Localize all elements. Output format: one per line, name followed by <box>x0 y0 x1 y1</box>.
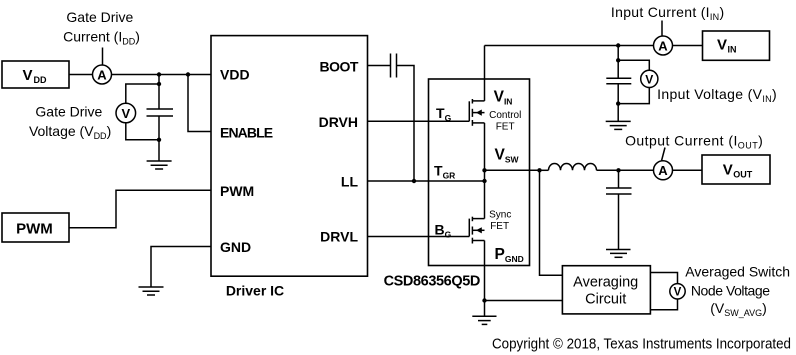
wire rail to ENABLE pin <box>188 75 211 132</box>
svg-text:PWM: PWM <box>16 220 53 237</box>
wire averaging to V3 top <box>650 273 677 284</box>
svg-text:Sync: Sync <box>489 210 511 221</box>
node dot rail/enable <box>186 72 190 76</box>
node dot rail/cap <box>157 72 161 76</box>
leader line to A1 <box>102 48 104 65</box>
wire PWM box to PWM pin <box>69 190 211 227</box>
svg-text:ENABLE: ENABLE <box>220 125 273 141</box>
capacitor C1 <box>147 109 174 116</box>
svg-text:Node Voltage: Node Voltage <box>691 282 770 298</box>
pin label TG <box>436 105 452 123</box>
pin label DRVL <box>320 229 358 245</box>
pin label LL <box>341 174 359 190</box>
svg-text:BOOT: BOOT <box>320 58 359 74</box>
wire V2 bottom tap <box>618 88 649 104</box>
svg-text:VDD: VDD <box>220 67 250 83</box>
wire A3 to VOUT box <box>673 169 703 171</box>
power block box CSD86356Q5D <box>429 79 530 266</box>
node dot output cap <box>616 168 620 172</box>
label output current (IOUT) <box>625 133 763 151</box>
wire averaging to V3 bottom <box>650 299 677 310</box>
label input voltage (VIN) <box>657 86 777 104</box>
svg-text:V: V <box>121 106 130 121</box>
label input current (IIN) <box>611 4 725 22</box>
pin label BG <box>435 222 452 240</box>
svg-text:V: V <box>645 73 653 87</box>
svg-text:FET: FET <box>490 221 509 232</box>
transistor Q2 sync FET <box>469 217 484 244</box>
svg-text:V: V <box>674 287 682 299</box>
pin label BOOT <box>320 58 359 74</box>
top input rail wire <box>485 45 654 47</box>
wire A1 to VDD pin <box>112 74 212 76</box>
label gate drive current (IDD) <box>63 9 140 46</box>
node dot V1 top <box>157 82 161 86</box>
svg-text:Copyright © 2018, Texas Instru: Copyright © 2018, Texas Instruments Inco… <box>492 337 791 353</box>
svg-text:FET: FET <box>496 121 515 132</box>
svg-text:A: A <box>97 67 107 82</box>
svg-text:V: V <box>717 37 727 54</box>
node dot VSW <box>482 168 486 172</box>
svg-text:Driver IC: Driver IC <box>226 283 284 299</box>
source box VIN <box>703 31 770 60</box>
ground driver GND <box>139 287 164 295</box>
pin label ENABLE <box>220 125 273 141</box>
ground input cap <box>606 121 631 129</box>
svg-text:DRVH: DRVH <box>319 114 358 130</box>
pin label GND <box>220 239 251 255</box>
svg-text:V: V <box>23 67 33 84</box>
pin label VDD <box>220 67 250 83</box>
inductor L1 <box>540 164 619 171</box>
svg-text:DD: DD <box>34 75 47 85</box>
output capacitor C4 <box>606 188 632 194</box>
wire V1 top tap <box>126 84 159 103</box>
wire VSW to averaging circuit <box>540 170 563 275</box>
svg-text:LL: LL <box>341 174 359 190</box>
voltmeter V1 gate drive voltage <box>116 103 136 123</box>
pin label VIN <box>494 89 513 107</box>
label sync FET <box>489 210 511 233</box>
label gate drive voltage (VDD) <box>29 104 111 141</box>
pin label DRVH <box>319 114 358 130</box>
label control FET <box>489 110 521 132</box>
node dot input cap <box>616 43 620 47</box>
svg-text:V: V <box>723 161 733 178</box>
node dot LL join <box>482 179 486 183</box>
wire Q2 source to PGND ground <box>484 241 486 317</box>
output cap top lead <box>618 170 620 188</box>
ground gate drive <box>147 161 172 169</box>
svg-text:Averaged Switch: Averaged Switch <box>685 263 790 279</box>
wire boot capacitor to LL node <box>397 66 415 182</box>
svg-text:Input Voltage (VIN): Input Voltage (VIN) <box>657 86 777 104</box>
input cap bottom lead <box>617 84 619 122</box>
svg-text:GND: GND <box>220 239 251 255</box>
svg-text:Input Current (IIN): Input Current (IIN) <box>611 4 725 22</box>
wire PGND to averaging circuit <box>485 300 563 302</box>
pin label PGND <box>495 246 524 264</box>
leader line to A3 <box>662 148 665 161</box>
transistor Q1 control FET <box>469 99 484 126</box>
svg-text:PWM: PWM <box>220 183 254 199</box>
wire DRVH to TG <box>368 120 470 122</box>
wire LL node to Q2 drain <box>484 181 486 219</box>
svg-text:DRVL: DRVL <box>320 229 358 245</box>
node dot VSW out <box>537 168 541 172</box>
leader line to A2 <box>661 21 663 36</box>
pin label PWM <box>220 183 254 199</box>
wire BOOT to boot capacitor <box>368 65 391 67</box>
source box PWM <box>2 213 69 242</box>
svg-text:A: A <box>658 163 668 178</box>
input cap top lead <box>617 46 619 79</box>
wire LL to TGR <box>368 180 485 182</box>
wire VSW out <box>485 169 540 171</box>
wire VIN drain to top rail <box>484 46 486 101</box>
svg-text:CSD86356Q5D: CSD86356Q5D <box>384 274 480 290</box>
ammeter A1 gate drive current <box>93 65 112 84</box>
label averaged switch node voltage <box>685 263 790 317</box>
wire VDD box to ammeter A1 <box>69 74 93 76</box>
pin label TGR <box>434 163 455 181</box>
driver IC box U1 <box>211 36 368 277</box>
svg-text:IN: IN <box>728 45 737 55</box>
averaging circuit box <box>562 266 650 314</box>
node dot V1 bottom <box>157 138 161 142</box>
wire DRVL to BG <box>368 236 470 238</box>
label CSD86356Q5D <box>384 274 480 290</box>
wire Q1 source to VSW <box>484 123 486 181</box>
ground output cap <box>606 250 631 258</box>
label Driver IC <box>226 283 284 299</box>
source box VOUT <box>702 155 770 184</box>
svg-text:Circuit: Circuit <box>585 291 626 307</box>
voltmeter V3 averaged switch node <box>670 284 685 299</box>
pin label VSW <box>495 147 520 165</box>
node dot V2 top <box>616 58 620 62</box>
wire V1 bottom tap <box>126 123 159 140</box>
node dot V2 bottom <box>616 101 620 105</box>
ground PGND <box>472 316 496 324</box>
node dot boot/LL <box>412 179 416 183</box>
wire A2 to VIN box <box>673 45 703 47</box>
ammeter A3 output current <box>654 161 673 180</box>
wire GND pin to ground <box>151 247 211 288</box>
source box VDD <box>2 61 69 88</box>
input capacitor C3 <box>606 78 631 83</box>
wire V2 top tap <box>618 60 649 70</box>
ammeter A2 input current <box>654 36 673 55</box>
svg-text:Averaging: Averaging <box>573 274 638 290</box>
capacitor C1 bottom lead <box>158 116 160 161</box>
capacitor C1 top lead <box>158 75 160 110</box>
boot capacitor C2 <box>391 54 397 78</box>
node dot PGND <box>482 298 486 302</box>
voltmeter V2 input voltage <box>641 70 658 87</box>
output cap bottom lead <box>618 194 620 250</box>
svg-text:A: A <box>658 38 668 53</box>
copyright notice <box>492 337 791 353</box>
svg-text:Control: Control <box>489 110 521 121</box>
svg-text:OUT: OUT <box>733 169 753 179</box>
wire to ammeter A3 <box>619 169 654 171</box>
